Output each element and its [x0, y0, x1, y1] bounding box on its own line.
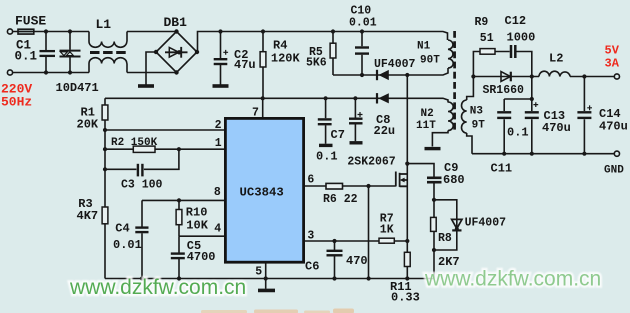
svg-text:0.1: 0.1: [507, 126, 529, 140]
svg-text:5K6: 5K6: [306, 57, 327, 70]
capacitor C7 plates: [318, 119, 332, 124]
orange smudge bottom: [201, 309, 354, 313]
wire: DB1 left corner to primary ground: [146, 52, 156, 85]
svg-text:0.1: 0.1: [15, 49, 38, 63]
svg-text:N1: N1: [417, 41, 431, 53]
ground bar under C8: [350, 141, 363, 144]
svg-text:C7: C7: [331, 128, 345, 142]
svg-text:10D471: 10D471: [56, 81, 99, 95]
svg-text:51: 51: [480, 32, 494, 45]
wire: SR1660 wire: [473, 76, 531, 78]
bridge rectifier DB1: [156, 32, 197, 73]
svg-text:470: 470: [346, 254, 368, 268]
wire: AC top rail from input terminal to L1: [13, 31, 90, 33]
resistor R5 body: [330, 43, 336, 58]
wire: pin 8 wire: [142, 199, 226, 201]
svg-text:4K7: 4K7: [77, 209, 99, 223]
svg-text:470u: 470u: [542, 121, 571, 135]
svg-text:90T: 90T: [420, 55, 440, 67]
output terminal 5V: [614, 74, 619, 79]
svg-text:R8: R8: [438, 232, 452, 245]
wire: N3 bottom lead to secondary rail: [467, 133, 472, 154]
wire: top rail L1 to DB1 top corner: [127, 31, 177, 33]
capacitor C13 plates electrolytic: [525, 112, 539, 118]
wire: C9 branch from drain: [407, 164, 434, 200]
ground bar pin5: [258, 289, 275, 293]
wire: secondary bottom rail: [472, 153, 615, 155]
svg-text:L1: L1: [96, 17, 112, 32]
watermark left: [69, 276, 246, 299]
IC U1 UC3843 body: [225, 118, 303, 262]
svg-text:2SK2067: 2SK2067: [347, 155, 395, 168]
svg-text:UF4007: UF4007: [465, 217, 507, 230]
ground bar under N2: [425, 147, 441, 150]
diode SR1660: [501, 72, 511, 82]
resistor R8 body: [431, 217, 437, 231]
svg-text:C11: C11: [491, 162, 513, 176]
wire: pin 2 wire: [105, 129, 226, 131]
output terminal GND: [614, 151, 619, 156]
svg-text:C3 100: C3 100: [121, 179, 163, 192]
wire: C6 leads: [334, 241, 336, 279]
wire: pin 6 gate wire through R6: [304, 185, 396, 187]
C8 plus mark: [358, 112, 363, 117]
wire: pin 7 vertical: [262, 98, 264, 118]
svg-text:C4: C4: [115, 221, 129, 235]
svg-text:DB1: DB1: [164, 15, 188, 30]
svg-text:4: 4: [214, 223, 221, 236]
svg-text:2: 2: [215, 119, 222, 132]
common mode choke L1: [89, 32, 127, 73]
svg-text:R9: R9: [475, 16, 489, 29]
svg-text:1K: 1K: [380, 223, 394, 236]
varistor 10D471 symbol: [60, 51, 81, 57]
wire: C14 leads: [583, 77, 585, 154]
input terminal bottom: [7, 70, 12, 75]
svg-text:C12: C12: [505, 14, 527, 28]
svg-text:8: 8: [214, 186, 221, 199]
svg-text:www.dzkfw.com.cn: www.dzkfw.com.cn: [69, 276, 246, 299]
svg-text:4700: 4700: [187, 250, 216, 264]
wire: pin 5 stub to ground: [265, 262, 267, 289]
transformer T1 core dashed: [453, 31, 456, 132]
transformer aux winding N2: [448, 102, 453, 131]
C14 plus mark: [587, 105, 592, 110]
svg-text:GND: GND: [604, 165, 624, 177]
svg-text:20K: 20K: [77, 117, 99, 131]
wire: C13 leads: [531, 99, 533, 154]
diode UF4007 D2 on VCC rail: [377, 93, 389, 103]
svg-text:0.01: 0.01: [113, 238, 142, 252]
wire: C3 branch: [105, 149, 179, 169]
resistor R11 body: [404, 252, 410, 266]
wire: varistor vertical: [69, 32, 71, 73]
resistor R10 body: [176, 210, 182, 225]
capacitor C1 plates: [40, 51, 56, 56]
wire: C1 vertical: [45, 32, 47, 73]
capacitor C6 plates: [327, 251, 343, 256]
capacitor C8 plates electrolytic: [349, 119, 363, 124]
svg-text:UC3843: UC3843: [240, 185, 284, 199]
wire: C11 leads: [504, 77, 532, 154]
svg-text:50Hz: 50Hz: [1, 95, 32, 110]
wire: secondary snubber R9 C12: [473, 52, 531, 77]
capacitor C11 plates: [497, 112, 511, 118]
svg-text:22u: 22u: [374, 124, 396, 138]
wire: C4 leads: [141, 200, 143, 278]
svg-text:5: 5: [255, 266, 262, 279]
wire: C10 vertical leads: [361, 32, 363, 76]
wire: left bias column R1 R3: [104, 98, 106, 278]
wire: AC bottom rail from input terminal to L1: [13, 72, 90, 74]
wire: R10 leads: [178, 200, 180, 236]
wire: clamp wire R5/C10 to UF4007 D1 to N1 bottom: [333, 74, 407, 76]
svg-text:FUSE: FUSE: [15, 14, 46, 29]
capacitor C4 plates: [135, 228, 148, 233]
wire: C8 leads: [354, 98, 356, 141]
transformer secondary winding N3: [462, 100, 467, 133]
svg-text:UF4007: UF4007: [374, 58, 416, 71]
diode UF4007 D3 vertical: [452, 219, 462, 231]
watermark right: [424, 268, 601, 291]
svg-text:N2: N2: [421, 108, 434, 120]
capacitor C12 plates vertical: [511, 45, 515, 58]
capacitor C14 plates electrolytic: [577, 112, 591, 118]
svg-text:1: 1: [215, 137, 222, 150]
ground bar under C7: [319, 144, 333, 147]
wire: N3 top lead: [467, 77, 474, 101]
C2 plus mark: [223, 50, 228, 55]
svg-text:5V: 5V: [605, 43, 620, 57]
wire: output wire SR1660 to L2 to +5V terminal: [532, 76, 615, 78]
svg-text:R4: R4: [273, 38, 287, 52]
wire: N1 bottom lead: [407, 68, 448, 75]
resistor R6 body: [326, 183, 343, 189]
svg-text:7: 7: [252, 107, 259, 120]
wire: pin 3 wire through R7 to source node: [304, 240, 408, 242]
input terminal top: [7, 29, 12, 34]
capacitor C3 plates vertical: [138, 164, 143, 177]
wire: bottom rail L1 to DB1 bottom corner: [127, 72, 177, 74]
wire: DB1 right corner up to DC+ rail, rail to transformer N1: [198, 32, 448, 53]
svg-text:1000: 1000: [507, 31, 536, 45]
inductor L2: [539, 71, 570, 76]
wire: bottom primary rail: [105, 278, 434, 280]
svg-text:0.01: 0.01: [349, 16, 377, 29]
svg-text:9T: 9T: [472, 119, 486, 131]
svg-text:www.dzkfw.com.cn: www.dzkfw.com.cn: [424, 268, 601, 291]
wire: C7 leads: [325, 98, 327, 144]
svg-text:SR1660: SR1660: [483, 84, 525, 97]
wire: pin 1 wire with R2: [105, 148, 226, 150]
svg-text:6: 6: [307, 173, 314, 186]
MOSFET Q1 2SK2067: [396, 172, 408, 187]
wire: C2 vertical: [220, 32, 222, 85]
wire: vertical from gate node down to bottom rail: [368, 186, 370, 279]
svg-text:10K: 10K: [186, 219, 208, 233]
wire: N2 bottom lead to ground: [432, 131, 448, 147]
wire: R4 vertical startup resistor leads: [262, 32, 264, 99]
wire: C5 leads: [178, 236, 180, 278]
svg-text:N3: N3: [470, 106, 484, 118]
svg-text:0.33: 0.33: [391, 290, 420, 304]
fuse FUSE body: [18, 29, 34, 34]
capacitor C5 plates: [171, 254, 185, 259]
wire: drain vertical N1 bottom to MOSFET and down to R11 and bottom rail: [406, 75, 408, 279]
svg-text:R2 150K: R2 150K: [111, 137, 158, 149]
svg-text:470u: 470u: [599, 120, 628, 134]
wire: R5 leads: [332, 32, 334, 76]
capacitor C2 plates electrolytic: [214, 59, 228, 64]
wire: VCC rail y97 from R1 top to pin7/C7/C8/UF4007 D2 to N2 top: [105, 98, 448, 102]
primary ground bar under DB1: [138, 84, 154, 88]
resistor R2 body: [133, 146, 155, 152]
svg-text:3A: 3A: [605, 57, 620, 71]
svg-text:120K: 120K: [271, 52, 301, 66]
resistor R9 body: [480, 49, 495, 55]
transformer primary winding N1: [448, 40, 453, 68]
capacitor C9 plates: [427, 178, 442, 182]
resistor R3 body: [102, 207, 108, 224]
svg-text:L2: L2: [549, 52, 563, 66]
wire: pin 4 wire: [179, 235, 226, 237]
resistor R1 body: [102, 105, 108, 120]
capacitor C10 plates: [355, 48, 369, 54]
C13 plus mark: [533, 102, 538, 107]
svg-text:C6: C6: [305, 260, 319, 274]
svg-text:680: 680: [443, 173, 465, 187]
svg-text:47u: 47u: [234, 58, 256, 72]
diode UF4007 D1 on clamp wire: [377, 70, 389, 80]
svg-text:3: 3: [307, 230, 314, 243]
svg-text:11T: 11T: [416, 120, 436, 132]
resistor R7 body: [379, 238, 394, 243]
svg-text:R10: R10: [186, 206, 208, 220]
wire: R8 / UF4007 D3 loop: [434, 200, 457, 279]
svg-text:R6 22: R6 22: [323, 193, 358, 206]
ground bar under C2: [213, 84, 229, 88]
resistor R4 body: [260, 52, 266, 67]
svg-text:0.1: 0.1: [316, 149, 338, 163]
